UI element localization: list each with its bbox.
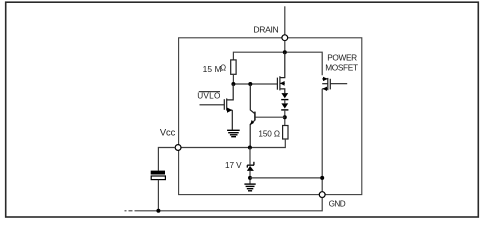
svg-text:DRAIN: DRAIN [253,25,278,35]
svg-text:17 V: 17 V [225,161,242,170]
svg-text:150 Ω: 150 Ω [258,129,280,138]
node Vcc pin (open circle) [175,145,181,151]
wire: DRAIN pin down to internal top rail [284,41,286,53]
svg-text:UVLO: UVLO [197,92,221,101]
junction: top rail x drain [283,50,287,54]
wire: diode bottom to node [284,110,286,126]
junction: Vcc rail x zener [248,146,252,150]
wire: capacitor bottom to ground rail [157,180,159,211]
IC boundary box [179,38,362,195]
wire: 150 ohm bottom to Vcc rail [181,139,285,148]
wire: zener node to power MOSFET source line [250,177,322,179]
transistor M1 (internal MOSFET) [277,52,284,93]
resistor 150 ohm [283,126,288,140]
wire: drain lead from top frame to DRAIN pin [284,6,286,34]
svg-text:GND: GND [329,199,346,208]
wire: gate rail [233,83,277,85]
ground (zener anode) [244,184,255,191]
diode D1 [281,93,288,100]
resistor 15 Mohm [231,60,236,74]
capacitor C1 (Vcc electrolytic) [151,171,166,180]
wire: internal top rail [233,52,322,75]
node GND pin (open circle) [319,192,325,198]
wire: GND pin down to bottom ground rail [140,198,322,211]
zener diode 17 V [247,148,254,185]
junction: gate rail x BJT base [248,82,252,86]
diode D2 [281,100,288,110]
transistor POWER MOSFET [322,77,347,91]
transistor UVLO MOSFET [200,84,234,130]
label POWER MOSFET [325,53,358,73]
label UVLO (overlined) [197,92,221,101]
wire: ground rail dashed left end [125,210,141,212]
junction: capacitor x ground rail [156,209,160,213]
svg-text:POWER: POWER [327,53,357,63]
ground (UVLO source) [227,130,240,136]
junction: clamp node [283,115,287,119]
wire: 15 Mohm bottom to gate rail node [232,74,234,84]
wire: collector wire to clamp node [255,116,285,118]
wire: Vcc pin to capacitor [158,148,175,171]
junction: source line x zener-node wire [320,176,324,180]
junction: zener anode node [248,176,252,180]
node DRAIN pin (open circle) [282,35,288,41]
svg-text:Vcc: Vcc [160,126,176,137]
transistor Q1 (BJT) [250,84,255,148]
svg-text:MOSFET: MOSFET [325,63,358,73]
junction: gate rail left node [231,82,235,86]
wire: power MOSFET source down to GND pin [321,89,323,192]
svg-text:15 M: 15 M [203,64,222,74]
svg-text:Ω: Ω [220,63,226,72]
